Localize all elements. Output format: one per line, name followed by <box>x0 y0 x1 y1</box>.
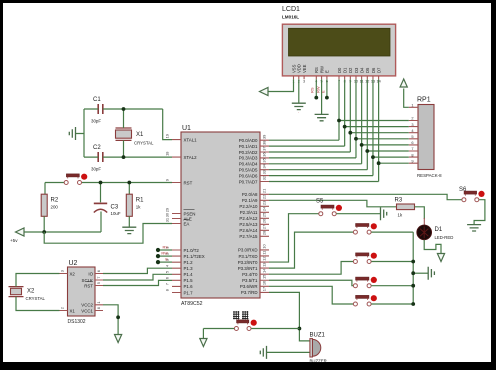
svg-text:9: 9 <box>165 179 170 181</box>
svg-text:33: 33 <box>262 170 267 174</box>
wire: P2.0 to switch S6 <box>269 194 462 199</box>
wire: P0.3 / LCD D3 / RP1 pin 5 net <box>269 157 356 159</box>
svg-text:P3.5/T1: P3.5/T1 <box>242 278 258 283</box>
svg-text:P1.2: P1.2 <box>184 260 194 265</box>
svg-text:P0.7/AD7: P0.7/AD7 <box>239 179 258 184</box>
svg-text:2: 2 <box>60 307 65 309</box>
svg-text:1k: 1k <box>398 213 403 218</box>
svg-text:P3.7/RD: P3.7/RD <box>241 290 258 295</box>
wire: U1 P1 pin net label RS <box>158 249 172 251</box>
svg-text:19: 19 <box>165 134 170 138</box>
svg-text:15: 15 <box>262 275 267 279</box>
node: R1 top junction <box>127 181 131 185</box>
svg-text:P2.7/A15: P2.7/A15 <box>239 234 258 239</box>
svg-text:P0.0/AD0: P0.0/AD0 <box>239 138 258 143</box>
svg-text:AT89C52: AT89C52 <box>181 301 203 307</box>
svg-text:CRYSTAL: CRYSTAL <box>134 141 154 146</box>
wire: P3.2 to switch S5 <box>269 214 319 262</box>
junction node D1 <box>343 125 347 129</box>
wire: U1 P1.4 to U2 SCLK <box>103 274 172 280</box>
junction node D6 <box>371 155 375 159</box>
svg-text:RW: RW <box>161 251 168 256</box>
border frame <box>0 0 496 3</box>
wire: X2 crystal to U2 X2/X1 pins <box>16 274 60 311</box>
svg-text:D5: D5 <box>365 67 370 73</box>
wire: RP1 pin 1 to power arrow <box>404 89 409 108</box>
wire: buzzer bottom lead to sideways ground <box>267 351 310 353</box>
wire: P0.6 / LCD D6 / RP1 pin 8 net <box>269 175 373 177</box>
wire: LCD VSS pin 1 to left power arrow <box>268 79 294 91</box>
svg-text:26: 26 <box>262 219 267 223</box>
svg-text:R1: R1 <box>136 198 144 204</box>
wire: P3.3 to button K2 <box>269 232 353 268</box>
svg-text:LED-RED: LED-RED <box>435 235 454 240</box>
svg-text:16: 16 <box>262 281 267 285</box>
+5v power terminal arrow <box>16 228 25 236</box>
power terminal arrow left of LCD <box>260 88 269 96</box>
svg-text:D6: D6 <box>371 67 376 73</box>
wire: EA pin loop to +5v rail <box>44 224 172 244</box>
node: rail K3 junction <box>411 260 415 264</box>
RP1 RESPACK-8 resistor pack <box>409 97 442 179</box>
wire: C2 to XTAL2 <box>84 156 172 158</box>
svg-text:D2: D2 <box>348 67 353 73</box>
svg-text:RW: RW <box>319 66 324 73</box>
svg-text:7: 7 <box>165 283 170 285</box>
crystal X1 <box>116 128 155 146</box>
svg-text:XTAL2: XTAL2 <box>184 155 198 160</box>
svg-text:RST: RST <box>184 180 193 185</box>
svg-text:38: 38 <box>262 141 267 145</box>
wire: R3 to LED D1 <box>415 207 425 219</box>
svg-text:1: 1 <box>96 301 101 303</box>
ground under R1 <box>122 227 136 233</box>
svg-text:E: E <box>321 90 326 93</box>
svg-text:RP1: RP1 <box>417 97 431 104</box>
svg-text:P2.6/A14: P2.6/A14 <box>239 228 258 233</box>
svg-text:E: E <box>325 70 330 73</box>
svg-text:D4: D4 <box>359 67 364 73</box>
svg-text:U1: U1 <box>182 125 191 132</box>
svg-text:P2.5/A13: P2.5/A13 <box>239 222 258 227</box>
junction node D5 <box>365 149 369 153</box>
svg-text:D3: D3 <box>354 67 359 73</box>
svg-text:+5v: +5v <box>10 238 18 243</box>
buzzer BUZ1 <box>310 333 327 364</box>
junction node D4 <box>360 143 364 147</box>
svg-text:EA: EA <box>184 221 190 226</box>
svg-text:P0.3/AD3: P0.3/AD3 <box>239 156 258 161</box>
capacitor C3 (electrolytic) <box>94 183 121 217</box>
wire: P0.4 / LCD D4 / RP1 pin 6 net <box>269 163 362 165</box>
wire: speaker button right to buzzer net <box>251 328 299 330</box>
resistor R2 <box>41 194 59 216</box>
svg-text:VCC2: VCC2 <box>81 303 93 308</box>
ground left of crystal caps <box>69 127 75 140</box>
svg-text:VDD: VDD <box>297 64 302 73</box>
svg-text:P1.0/T2: P1.0/T2 <box>184 248 200 253</box>
op: U1 AT89C52 microcontroller body <box>181 125 260 307</box>
svg-text:36: 36 <box>262 152 267 156</box>
svg-text:28: 28 <box>262 231 267 235</box>
ground right of S5 <box>381 207 387 220</box>
wire: U2 VCC2 to ground arrow <box>103 305 118 335</box>
svg-text:BUZ1: BUZ1 <box>310 333 326 339</box>
svg-text:P0.5/AD5: P0.5/AD5 <box>239 168 258 173</box>
svg-text:SCLK: SCLK <box>82 278 94 283</box>
ground under LCD pin 2 <box>292 103 306 109</box>
svg-text:P2.1/A9: P2.1/A9 <box>242 198 258 203</box>
ground left of buzzer <box>260 346 266 359</box>
svg-text:C2: C2 <box>93 145 101 151</box>
crystal X2 <box>9 287 46 301</box>
power terminal arrow above RP1 <box>400 79 407 87</box>
node: rail K4 junction <box>411 284 415 288</box>
svg-text:P3.2/INT0: P3.2/INT0 <box>238 260 258 265</box>
U1 left pin stubs, numbers and labels <box>165 134 205 295</box>
push button K3 <box>353 253 377 264</box>
svg-text:P3.1/TXD: P3.1/TXD <box>238 254 257 259</box>
svg-text:8: 8 <box>165 289 170 291</box>
push button S6 <box>462 191 485 202</box>
wire: P0.1 / LCD D1 / RP1 pin 3 net <box>269 145 345 147</box>
svg-text:RESPACK-8: RESPACK-8 <box>417 173 442 178</box>
wire: U1 P1.5 to U2 RST <box>103 280 172 285</box>
svg-text:32: 32 <box>262 176 267 180</box>
wire: U1 P1 pin net label RW <box>158 255 172 257</box>
wire: P3.7 to buzzer <box>269 292 310 341</box>
wire: LCD E pin 6 stub with net label E <box>326 79 328 97</box>
wire: U1 P1.3 to U2 IO <box>103 268 172 273</box>
svg-text:XTAL1: XTAL1 <box>184 137 198 142</box>
wire: LCD RS pin 4 stub with net label RS <box>315 79 317 97</box>
svg-text:X1: X1 <box>70 308 76 313</box>
svg-text:21: 21 <box>262 189 267 193</box>
wire: K3 right to rail <box>371 261 413 263</box>
node: C3 top junction <box>99 181 103 185</box>
svg-text:31: 31 <box>165 218 170 222</box>
svg-text:RW: RW <box>315 86 320 93</box>
push button K5 <box>353 295 377 306</box>
svg-text:10uF: 10uF <box>111 211 121 216</box>
wire: LCD VDD pin 2 down to ground <box>298 79 300 103</box>
svg-text:7: 7 <box>96 277 101 279</box>
wire: rail to sideways ground <box>413 272 428 274</box>
svg-text:P3.0/RXD: P3.0/RXD <box>238 248 258 253</box>
wire: P3.4 to button K3 <box>269 262 353 275</box>
svg-text:RS: RS <box>314 67 319 73</box>
ground right of button rail <box>428 267 434 280</box>
svg-text:23: 23 <box>262 201 267 205</box>
wire: P0.2 / LCD D2 / RP1 pin 4 net <box>269 151 350 153</box>
svg-text:P3.3/INT1: P3.3/INT1 <box>238 266 258 271</box>
svg-text:P1.4: P1.4 <box>184 272 194 277</box>
svg-text:RS: RS <box>310 87 315 93</box>
svg-text:29: 29 <box>165 208 170 212</box>
svg-text:C1: C1 <box>93 97 101 103</box>
svg-text:39: 39 <box>262 135 267 139</box>
svg-text:E: E <box>165 257 168 262</box>
power terminal arrow under speaker button <box>200 339 207 347</box>
node: speaker button junction <box>298 327 302 331</box>
svg-text:200: 200 <box>51 205 59 210</box>
wire: P0.0 / LCD D0 / RP1 pin 2 net <box>269 139 339 141</box>
svg-text:P1.7: P1.7 <box>184 290 194 295</box>
svg-text:25: 25 <box>262 213 267 217</box>
svg-text:R3: R3 <box>395 198 403 204</box>
svg-text:X2: X2 <box>27 289 35 295</box>
svg-text:18: 18 <box>165 152 170 156</box>
capacitor C1 <box>91 97 103 124</box>
node: rail K5 junction <box>411 302 415 306</box>
push button S5 <box>319 205 342 216</box>
svg-text:22: 22 <box>262 195 267 199</box>
node: C2/X1 junction <box>122 155 126 159</box>
svg-text:VSS: VSS <box>291 64 296 73</box>
push button S1 (reset) <box>64 174 87 185</box>
wire: common ground rail <box>412 232 414 304</box>
svg-text:6: 6 <box>165 277 170 279</box>
svg-text:LCD1: LCD1 <box>282 6 300 13</box>
node: C1/X1 junction <box>122 107 126 111</box>
wire: +5v rail, R2 bottom, C3 bottom <box>22 212 102 233</box>
svg-text:D1: D1 <box>342 67 347 73</box>
svg-text:S5: S5 <box>316 199 324 205</box>
power terminal arrow under U2 <box>115 335 122 343</box>
svg-text:P3.4/T0: P3.4/T0 <box>242 272 258 277</box>
svg-text:RS: RS <box>162 245 168 250</box>
svg-text:17: 17 <box>262 287 267 291</box>
svg-text:13: 13 <box>262 263 267 267</box>
wire: U1 P1 pin net label E <box>158 261 172 263</box>
junction node D0 <box>337 119 341 123</box>
wire: RST net <box>45 182 172 184</box>
LED D1 LED-RED <box>417 225 453 240</box>
svg-text:P0.6/AD6: P0.6/AD6 <box>239 173 258 178</box>
junction node D2 <box>348 131 352 135</box>
node: rail ground junction <box>411 271 415 275</box>
svg-text:1k: 1k <box>136 205 141 210</box>
svg-text:D7: D7 <box>376 67 381 73</box>
U2 pin stubs and labels <box>60 270 104 313</box>
svg-text:11: 11 <box>262 251 267 255</box>
power terminal arrow under LED <box>437 254 444 262</box>
svg-text:LM016L: LM016L <box>282 15 299 20</box>
wire: C1 to XTAL1 <box>84 109 172 140</box>
wire: C1/C2 left vertical to ground <box>76 109 84 157</box>
wire: crystal X1 to C1/C2 wires <box>123 109 125 157</box>
resistor R1 <box>126 183 144 217</box>
push button K4 <box>353 277 377 288</box>
svg-text:P0.4/AD4: P0.4/AD4 <box>239 162 258 167</box>
svg-text:P3.6/WR: P3.6/WR <box>240 284 258 289</box>
svg-text:P2.4/A12: P2.4/A12 <box>239 216 258 221</box>
svg-text:P2.0/A8: P2.0/A8 <box>242 192 258 197</box>
wire: P3.6 to button K5 <box>269 286 353 304</box>
wire: K4 right to rail <box>371 285 413 287</box>
svg-text:BUZZER: BUZZER <box>310 359 327 364</box>
LCD1 LM016L display <box>282 6 396 84</box>
svg-text:P0.2/AD2: P0.2/AD2 <box>239 150 258 155</box>
wire: P3.5 to button K4 <box>269 280 353 285</box>
svg-text:DS1302: DS1302 <box>68 319 86 325</box>
svg-text:C3: C3 <box>111 205 119 211</box>
svg-text:X2: X2 <box>70 271 76 276</box>
svg-text:P2.3/A11: P2.3/A11 <box>240 210 258 215</box>
svg-text:X1: X1 <box>136 132 144 138</box>
wire: K2 right to common rail <box>371 231 413 233</box>
capacitor C2 <box>91 145 103 172</box>
wire: LCD RW pin 5 down to ground, net label RW <box>321 79 323 114</box>
U2 DS1302 RTC body <box>68 260 96 325</box>
svg-text:·: · <box>298 111 299 115</box>
svg-text:3: 3 <box>60 270 65 272</box>
svg-text:RST: RST <box>84 283 93 288</box>
svg-text:37: 37 <box>262 146 267 150</box>
svg-text:P0.1/AD1: P0.1/AD1 <box>239 144 258 149</box>
svg-text:30pF: 30pF <box>91 119 101 124</box>
wire: P2.1 to R3 <box>269 200 397 207</box>
svg-text:8: 8 <box>96 307 101 309</box>
svg-text:VCC1: VCC1 <box>81 308 93 313</box>
svg-text:3: 3 <box>303 80 305 84</box>
junction node D7 <box>377 161 381 165</box>
svg-text:27: 27 <box>262 225 267 229</box>
svg-text:D1: D1 <box>435 227 443 233</box>
push button speaker key <box>234 320 256 331</box>
svg-text:12: 12 <box>262 257 267 261</box>
svg-text:R2: R2 <box>51 198 59 204</box>
push button K2 <box>353 223 377 234</box>
wire: P0.7 / LCD D7 / RP1 pin 9 net <box>269 181 379 183</box>
svg-text:P1.6: P1.6 <box>184 284 194 289</box>
wire: S5 right to sideways ground <box>337 213 381 215</box>
svg-text:VEE: VEE <box>302 64 307 73</box>
wire: P0.5 / LCD D5 / RP1 pin 7 net <box>269 169 367 171</box>
wire: speaker button left to ground arrow <box>203 329 234 339</box>
node: +5v / R2 / EA junction <box>42 230 46 234</box>
svg-text:P1.5: P1.5 <box>184 278 194 283</box>
junction node D3 <box>354 137 358 141</box>
svg-text:30pF: 30pF <box>91 167 101 172</box>
resistor R3 <box>395 198 415 218</box>
svg-text:P1.1/T2EX: P1.1/T2EX <box>184 254 205 259</box>
svg-text:CRYSTAL: CRYSTAL <box>26 296 46 301</box>
ground under S6 <box>467 225 481 231</box>
svg-text:D0: D0 <box>337 67 342 73</box>
U1 right pin stubs, numbers and labels <box>238 135 269 296</box>
svg-text:6: 6 <box>96 270 101 272</box>
svg-text:IO: IO <box>88 271 93 276</box>
wire: K5 right to rail <box>371 303 413 305</box>
svg-text:5: 5 <box>165 271 170 273</box>
svg-text:35: 35 <box>262 158 267 162</box>
svg-text:P1.3: P1.3 <box>184 266 194 271</box>
svg-text:U2: U2 <box>69 260 78 267</box>
svg-text:P2.2/A10: P2.2/A10 <box>239 204 258 209</box>
wire: R1 to ground <box>128 216 130 227</box>
wire: LED D1 to ground arrow <box>424 240 441 254</box>
svg-text:5: 5 <box>96 282 101 284</box>
wire: S6 to ground <box>474 200 485 225</box>
